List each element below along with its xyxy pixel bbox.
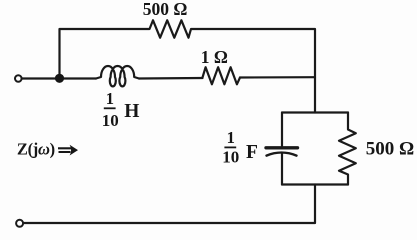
svg-text:500 Ω: 500 Ω bbox=[366, 138, 414, 159]
svg-text:10: 10 bbox=[102, 111, 119, 130]
svg-text:10: 10 bbox=[222, 148, 239, 167]
svg-text:500 Ω: 500 Ω bbox=[143, 0, 188, 19]
svg-text:H: H bbox=[124, 101, 139, 122]
svg-text:Z(jω): Z(jω) bbox=[17, 140, 55, 159]
svg-text:1 Ω: 1 Ω bbox=[201, 47, 228, 67]
svg-text:F: F bbox=[246, 142, 258, 163]
svg-text:1: 1 bbox=[106, 89, 114, 108]
svg-text:1: 1 bbox=[227, 128, 235, 147]
